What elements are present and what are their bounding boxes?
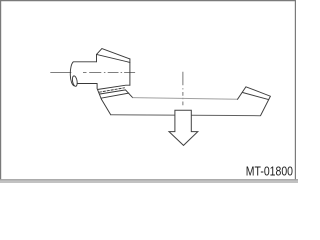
svg-text:MT-01800: MT-01800 xyxy=(246,163,294,178)
